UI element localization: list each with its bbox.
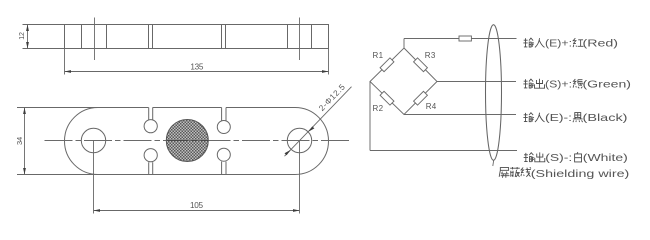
- hole edge line right: [287, 25, 289, 49]
- strain gauge hatched circle: [166, 120, 208, 162]
- svg-text:R1: R1: [373, 51, 384, 60]
- svg-text:105: 105: [190, 201, 204, 210]
- dimension 135: [65, 49, 329, 75]
- dimension 12: [23, 25, 65, 49]
- keyhole top-left: [149, 108, 153, 120]
- resistor R2: [380, 91, 394, 105]
- label output S+ green: [523, 79, 583, 89]
- mounting hole left: [81, 128, 105, 152]
- side view body outline: [65, 25, 329, 49]
- resistor R1: [380, 58, 394, 72]
- dimension 34: [17, 108, 99, 175]
- svg-text:34: 34: [15, 137, 24, 145]
- wire 4 to cable: [370, 150, 517, 152]
- svg-text:12: 12: [19, 32, 26, 40]
- label input E- black: [523, 113, 582, 123]
- svg-text:(Black): (Black): [583, 112, 628, 124]
- svg-text:(E)+:: (E)+:: [545, 37, 572, 49]
- svg-text:135: 135: [190, 62, 204, 71]
- svg-text:(Shielding wire): (Shielding wire): [531, 168, 630, 180]
- dimension 105: [94, 210, 300, 212]
- wire 3 bottom node to cable: [404, 114, 516, 116]
- svg-text:(E)-:: (E)-:: [545, 112, 572, 124]
- label input E+ red: [523, 38, 583, 47]
- bridge diamond wires: [370, 48, 437, 115]
- resistor on top wire: [459, 36, 471, 41]
- label output S- white: [524, 152, 582, 162]
- slot gaps erase on edges: [149, 106, 226, 108]
- slot lines right pair: [222, 25, 226, 49]
- svg-text:(S)-:: (S)-:: [545, 152, 572, 164]
- svg-text:R2: R2: [373, 104, 384, 113]
- hole edge line left: [81, 25, 83, 49]
- svg-text:(S)+:: (S)+:: [545, 78, 572, 90]
- svg-text:(Red): (Red): [583, 37, 619, 49]
- resistor R3: [414, 58, 428, 72]
- svg-text:R4: R4: [426, 102, 437, 111]
- svg-text:(Green): (Green): [583, 78, 632, 90]
- slot lines left pair: [149, 25, 153, 49]
- keyhole bottom-left: [149, 162, 153, 174]
- cable ellipse: [486, 25, 502, 161]
- extension line right hole center: [299, 141, 301, 214]
- keyhole bottom-right: [222, 162, 226, 175]
- cable tail: [492, 160, 495, 166]
- svg-text:R3: R3: [425, 51, 436, 60]
- wire 2 right node to cable: [437, 81, 516, 83]
- wire 1 top to cable: [404, 38, 517, 40]
- wire top node up: [403, 39, 405, 49]
- label shielding wire: [499, 167, 531, 178]
- resistor R4: [414, 91, 428, 105]
- hole edge line left2: [106, 25, 108, 49]
- wire 4 left node down: [369, 82, 371, 151]
- keyhole top-right: [222, 108, 226, 121]
- centerline dash across gauge disc: [167, 140, 209, 142]
- centerline right hole side view: [299, 18, 301, 61]
- hole edge line right2: [311, 25, 313, 49]
- centerline left hole side view: [94, 18, 96, 61]
- horizontal centerline top view: [45, 140, 353, 142]
- svg-text:(White): (White): [583, 152, 628, 164]
- mounting hole right: [287, 128, 311, 152]
- svg-text:2-Φ12.5: 2-Φ12.5: [317, 82, 347, 113]
- extension line left hole center: [93, 141, 95, 214]
- leader 2-phi12.5: [285, 87, 352, 157]
- top view stadium outline: [65, 108, 329, 175]
